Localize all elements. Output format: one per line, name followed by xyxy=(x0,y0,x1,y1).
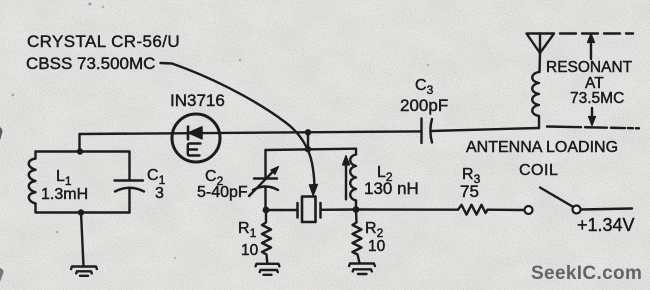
svg-text:CBSS 73.500MC: CBSS 73.500MC xyxy=(26,54,155,73)
wire switch to supply xyxy=(581,209,632,210)
svg-text:CRYSTAL CR-56/U: CRYSTAL CR-56/U xyxy=(27,32,180,51)
label C2 value xyxy=(197,184,248,201)
label supply voltage xyxy=(577,215,635,235)
svg-text:75: 75 xyxy=(460,182,479,201)
wire node to R3 xyxy=(356,208,458,211)
svg-text:3: 3 xyxy=(155,185,164,202)
label R1 value xyxy=(241,242,259,259)
inductor L2 coil on subframe right edge xyxy=(350,149,356,210)
watermark SeekIC.com xyxy=(531,263,642,284)
node dot L2 R2 R3 xyxy=(353,206,360,213)
label crystal line1 xyxy=(27,32,180,51)
svg-text:73.5MC: 73.5MC xyxy=(570,90,624,107)
dimension arrow up xyxy=(588,34,595,60)
svg-text:1.3mH: 1.3mH xyxy=(41,186,88,203)
label R2 value xyxy=(368,238,386,255)
wire subframe left edge xyxy=(264,150,266,179)
svg-text:SeekIC.com: SeekIC.com xyxy=(531,263,642,284)
svg-text:10: 10 xyxy=(368,238,386,255)
dashed dimension line top xyxy=(560,32,633,34)
label crystal line2 xyxy=(26,54,155,73)
wire crystal left stub xyxy=(266,209,298,211)
label diode 1N3716 xyxy=(170,91,225,110)
label R3 value xyxy=(460,182,479,201)
crystal CR-56/U right plate xyxy=(319,203,322,218)
label C3 value xyxy=(400,96,448,115)
wire R3 to terminal xyxy=(488,208,525,211)
label L1 xyxy=(56,168,72,188)
ground symbol under L1 xyxy=(71,267,97,276)
svg-text:COIL: COIL xyxy=(519,162,558,179)
capacitor C3 plates xyxy=(422,119,433,144)
antenna symbol xyxy=(527,34,555,54)
svg-text:IN3716: IN3716 xyxy=(170,91,225,110)
capacitor C1 plates xyxy=(115,181,145,213)
inductor L2 variable arrow xyxy=(343,156,350,200)
variable capacitor C2 arrow xyxy=(249,167,279,197)
crystal subcircuit frame top edge xyxy=(266,149,357,150)
label L2 value xyxy=(364,179,419,198)
wire stub to crystal subcircuit xyxy=(307,132,309,149)
node junction dot subframe top xyxy=(305,146,311,152)
node dot C2 R1 crystal xyxy=(263,207,270,214)
svg-text:10: 10 xyxy=(241,242,259,259)
ground symbol under R2 xyxy=(349,264,375,275)
leader curve from crystal label to crystal xyxy=(161,63,318,196)
terminal circle left of switch S1 xyxy=(525,206,533,214)
node dot L1 top xyxy=(77,148,83,154)
svg-text:130 nH: 130 nH xyxy=(364,179,419,198)
svg-text:+1.34V: +1.34V xyxy=(577,215,635,235)
tunnel diode IN3716 anode arrow and cathode bar xyxy=(188,127,202,140)
label at xyxy=(585,75,604,92)
switch S1 blade xyxy=(540,188,573,207)
wire main bus left xyxy=(80,131,422,151)
crystal CR-56/U body box xyxy=(302,197,316,223)
label L1 value xyxy=(41,186,88,203)
label C3 xyxy=(415,77,434,97)
node dot L1 bottom xyxy=(78,209,84,215)
wire main bus right xyxy=(431,128,539,131)
wire crystal right stub xyxy=(321,208,357,211)
label resonant xyxy=(546,59,633,76)
dashed dimension line bottom xyxy=(547,127,639,129)
wire L1 bottom to ground xyxy=(81,213,84,267)
antenna loading coil xyxy=(532,53,540,128)
dimension arrow down xyxy=(589,108,596,126)
tunnel diode IN3716 E-shaped cathode mark xyxy=(188,144,201,156)
tunnel diode IN3716 circle xyxy=(172,114,220,162)
node junction dot on main bus xyxy=(305,129,311,135)
resistor R3 zigzag xyxy=(458,205,488,215)
resistor R1 zigzag xyxy=(262,210,271,263)
label C1 xyxy=(147,167,166,187)
label L2 xyxy=(377,164,393,184)
resistor R2 zigzag xyxy=(353,210,362,264)
switch S1 right terminal circle xyxy=(573,206,581,214)
crystal CR-56/U left plate xyxy=(296,203,299,218)
label C2 xyxy=(205,168,224,188)
label 73.5MC xyxy=(570,90,624,107)
label R3 xyxy=(462,166,481,186)
variable capacitor C2 plates xyxy=(253,179,278,211)
label antenna loading xyxy=(466,139,618,156)
svg-text:5-40pF: 5-40pF xyxy=(197,184,248,201)
svg-text:ANTENNA LOADING: ANTENNA LOADING xyxy=(466,139,618,156)
label R1 xyxy=(238,220,257,240)
label C1 value xyxy=(155,185,164,202)
svg-text:RESONANT: RESONANT xyxy=(546,59,633,76)
ground symbol under R1 xyxy=(256,264,280,275)
label coil xyxy=(519,162,558,179)
label R2 xyxy=(365,220,384,240)
inductor L1 tank rectangle with coil xyxy=(29,152,130,213)
svg-text:200pF: 200pF xyxy=(400,96,448,115)
